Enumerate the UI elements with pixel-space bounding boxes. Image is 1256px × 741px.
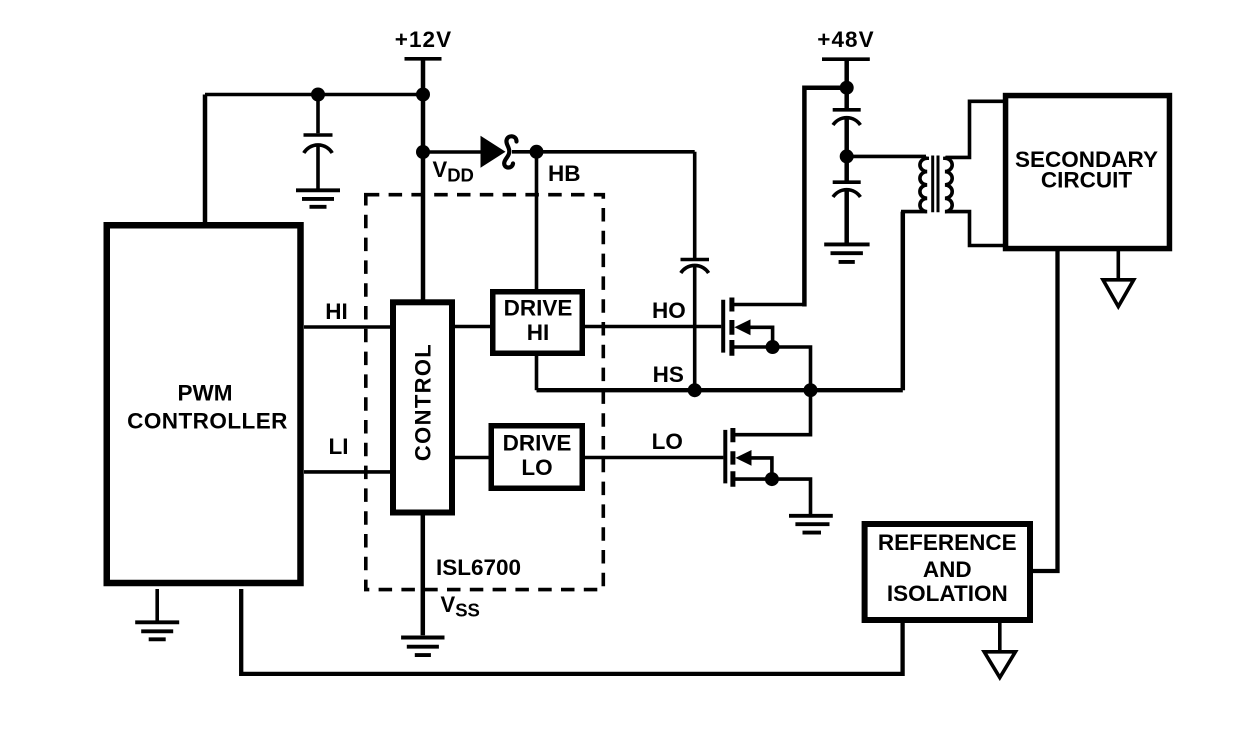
node VDD junction	[416, 145, 430, 159]
capacitor C1 plates	[304, 135, 333, 153]
node HS source junction	[804, 383, 818, 397]
transistor Q1 channel segments	[729, 298, 734, 356]
power +12V rail bar	[405, 57, 442, 61]
transformer T1 primary winding	[920, 157, 927, 212]
svg-text:HS: HS	[653, 362, 684, 387]
node HS cap junction	[688, 383, 702, 397]
diode D1 schottky squiggle cathode	[504, 136, 516, 167]
transistor Q2 channel segments	[730, 428, 735, 487]
capacitor C2 bottom lead to HS	[693, 266, 697, 390]
wire PWM bottom to common bottom rail	[241, 589, 902, 674]
capacitor C4 plates	[833, 182, 861, 197]
svg-text:LI: LI	[329, 434, 349, 459]
svg-text:HI: HI	[527, 320, 550, 345]
transistor Q1 drain wire to +48V branch	[734, 303, 803, 307]
capacitor C1 bottom lead	[316, 146, 320, 189]
wire +12V vertical feed	[421, 59, 426, 300]
transistor Q2 gate bar	[723, 430, 727, 484]
capacitor C2 bootstrap plates	[681, 260, 710, 274]
wire LI	[304, 470, 393, 474]
node +48V branch junction	[840, 81, 854, 95]
svg-text:CIRCUIT: CIRCUIT	[1041, 168, 1132, 193]
SECONDARY CIRCUIT box	[1006, 96, 1170, 249]
transistor Q1 gate bar	[721, 300, 725, 353]
wire left drop to PWM controller top	[203, 95, 208, 224]
earth triangle below secondary circuit	[1117, 248, 1121, 280]
wire top horizontal VDD rail	[205, 93, 423, 97]
wire HI	[304, 325, 393, 329]
transistor Q1 body diode arrow	[734, 319, 750, 335]
wire DRIVE HI bottom to HS net	[535, 353, 539, 390]
svg-text:ISOLATION: ISOLATION	[887, 581, 1008, 606]
ground VSS	[401, 638, 444, 656]
PWM controller box U2	[107, 225, 301, 583]
capacitor C3 plates	[833, 110, 861, 125]
wire HB right corner down to bootstrap cap	[693, 152, 697, 258]
wire secondary bottom to secondary circuit box	[946, 212, 1007, 246]
REFERENCE AND ISOLATION box	[865, 524, 1030, 620]
transistor Q1 body tie wire	[750, 327, 773, 347]
CONTROL block	[393, 302, 452, 512]
node Q1 body-source tie	[766, 340, 780, 354]
ground below C1	[296, 190, 340, 207]
wire diode cathode to HB node and right	[512, 150, 695, 154]
diode D1 (bootstrap)	[481, 136, 506, 168]
wire HB down to DRIVE HI top	[535, 152, 539, 291]
transistor Q2 body tie wire	[751, 458, 772, 479]
wire HS net horizontal	[537, 388, 903, 392]
svg-text:+12V: +12V	[395, 27, 453, 52]
capacitor C1 top lead	[316, 95, 320, 134]
wire primary bottom to HS riser	[901, 210, 926, 214]
svg-text:CONTROLLER: CONTROLLER	[127, 409, 288, 434]
transistor Q2 drain wire to HS node	[735, 390, 811, 435]
wire VDD to diode anode	[423, 150, 482, 154]
ground below Q2 source	[789, 516, 833, 533]
wire HO from DRIVE HI to Q1 gate	[582, 325, 721, 329]
wire secondary top to secondary circuit box	[946, 101, 1007, 157]
transformer T1 core	[933, 156, 938, 213]
wire cap midpoint to transformer primary top	[847, 155, 926, 159]
svg-text:HI: HI	[325, 299, 348, 324]
power +48V rail bar	[822, 57, 870, 61]
svg-text:+48V: +48V	[817, 27, 875, 52]
wire secondary circuit bottom to reference box	[1031, 248, 1058, 571]
transformer T1 secondary winding	[945, 157, 952, 212]
node HB junction	[530, 145, 544, 159]
wire CONTROL to DRIVE LO	[452, 456, 493, 460]
svg-text:LO: LO	[652, 429, 683, 454]
ground below PWM controller	[155, 589, 159, 621]
earth triangle below reference box	[998, 623, 1002, 652]
svg-text:ISL6700: ISL6700	[436, 555, 521, 580]
capacitor C4 leads	[844, 156, 849, 243]
wire +48V vertical feed	[844, 59, 849, 108]
svg-text:LO: LO	[521, 455, 552, 480]
svg-text:DRIVE: DRIVE	[504, 296, 573, 321]
wire CONTROL to DRIVE HI	[452, 325, 494, 329]
transistor Q2 source wire	[735, 479, 811, 515]
svg-text:HO: HO	[652, 298, 686, 323]
wire CONTROL bottom to VSS ground	[421, 512, 426, 635]
svg-text:PWM: PWM	[178, 381, 233, 406]
svg-text:CONTROL: CONTROL	[410, 343, 435, 461]
DRIVE HI block	[493, 292, 583, 354]
transistor Q1 source wire	[734, 347, 811, 390]
transistor Q2 body diode arrow	[735, 450, 751, 466]
node Q2 body-source tie	[765, 472, 779, 486]
capacitor C3 bottom lead	[844, 118, 849, 156]
ground below C4	[824, 244, 869, 262]
wire LO from DRIVE LO to Q2 gate	[582, 456, 723, 460]
DRIVE LO block	[491, 426, 582, 489]
svg-text:HB: HB	[548, 161, 581, 186]
svg-text:REFERENCE: REFERENCE	[878, 530, 1017, 555]
node junction at +12V rail	[416, 88, 430, 102]
svg-text:AND: AND	[923, 557, 972, 582]
node junction at C1 top	[311, 88, 325, 102]
ISL6700 dashed boundary box	[366, 195, 604, 590]
svg-text:DRIVE: DRIVE	[503, 431, 572, 456]
node capacitor midpoint junction	[840, 149, 854, 163]
